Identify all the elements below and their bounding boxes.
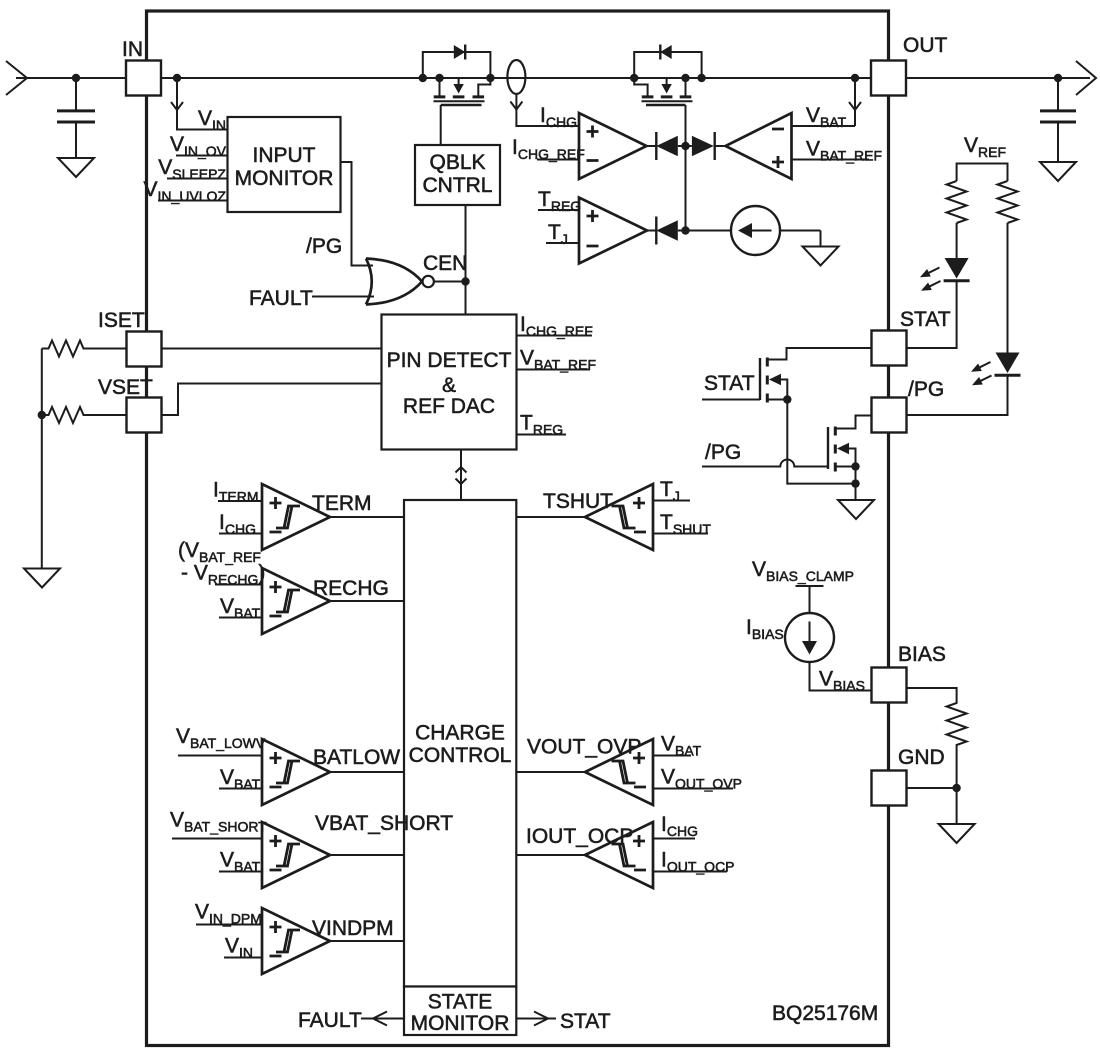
wire IN-OUT top rail [16, 77, 1090, 79]
svg-text:/PG: /PG [908, 378, 944, 401]
ground input cap [58, 158, 94, 177]
node V_BAT_SHORT input [170, 809, 267, 839]
wire V_BAT tap from OUT [792, 74, 862, 130]
pin VSET [98, 376, 162, 433]
resistor R_ISET [42, 341, 127, 357]
op-amp A1 charge current [579, 113, 647, 179]
pin /PG [872, 378, 945, 433]
comparator TSHUT [517, 484, 654, 550]
block PIN DETECT REF DAC [382, 315, 517, 450]
svg-text:VBAT_SHORT: VBAT_SHORT [170, 809, 267, 835]
node V_BAT input BATLOW [219, 766, 262, 792]
node I_CHG input IOUT_OCP [653, 813, 698, 839]
node V_IN_DPM input [195, 901, 262, 927]
ground ISET VSET [24, 569, 60, 588]
node output cap junction [1054, 74, 1062, 82]
ground thermal clamp [803, 247, 839, 266]
svg-text:ISET: ISET [98, 309, 145, 332]
LED STAT [907, 223, 970, 348]
svg-text:OUT: OUT [903, 34, 948, 57]
node V_IN input VINDPM [224, 935, 262, 961]
resistor R_STAT_LED [947, 181, 967, 223]
svg-text:CONTROL: CONTROL [409, 744, 512, 767]
svg-text:STATE: STATE [428, 991, 493, 1014]
svg-text:BQ25176M: BQ25176M [772, 1002, 878, 1025]
svg-text:ICHG: ICHG [540, 104, 577, 130]
wire GND pin to resistor [907, 787, 957, 789]
wire V_IN tap [171, 74, 228, 130]
block CHARGE CONTROL [404, 500, 516, 987]
capacitor C_OUT [1040, 78, 1076, 162]
node VBAT_REF-VRECHG input [178, 539, 265, 588]
node T_REG output [517, 412, 567, 438]
node T_J input TSHUT [653, 478, 690, 504]
node V_IN_UVLOZ [144, 178, 228, 204]
node V_OUT_OVP input [653, 766, 742, 792]
node input cap junction [72, 74, 80, 82]
node ISET-VSET ground net [38, 349, 46, 569]
svg-text:MONITOR: MONITOR [235, 167, 334, 190]
svg-text:BATLOW: BATLOW [313, 746, 400, 769]
resistor R_PG_LED [998, 181, 1018, 223]
node I_CHG_REF input A1 [512, 136, 585, 162]
node V_IN label [198, 107, 226, 133]
svg-text:QBLK: QBLK [429, 151, 485, 174]
svg-text:VIN: VIN [198, 107, 226, 133]
node A gate net [681, 142, 689, 235]
svg-text:VBAT_LOWV: VBAT_LOWV [176, 725, 266, 751]
svg-text:VBAT: VBAT [806, 104, 847, 130]
comparator TERM [262, 484, 404, 550]
node V_BAT_REF output [517, 347, 597, 373]
transistor Q_STAT [702, 348, 871, 484]
comparator BATLOW [262, 739, 404, 805]
wire STAT output [516, 1010, 610, 1033]
svg-text:ICHG: ICHG [661, 813, 698, 839]
svg-text:INPUT: INPUT [253, 144, 316, 167]
node BQ25176M part label [772, 1002, 878, 1025]
svg-text:VBIAS: VBIAS [819, 668, 865, 694]
node T_REG input A3 [538, 188, 581, 214]
node V_BAT_REF input A2 [792, 138, 883, 164]
svg-text:CEN: CEN [423, 252, 467, 275]
svg-text:FAULT: FAULT [249, 287, 313, 310]
svg-text:ICHG_REF: ICHG_REF [512, 136, 585, 162]
svg-text:STAT: STAT [560, 1010, 611, 1033]
svg-text:IN: IN [122, 38, 143, 61]
svg-text:GND: GND [898, 746, 945, 769]
svg-text:/PG: /PG [705, 441, 741, 464]
node I_CHG_REF output [517, 313, 593, 339]
wire FAULT input [249, 287, 374, 310]
node T_SHUT input [653, 511, 711, 537]
node V_BAT input VOUT_OVP [653, 733, 702, 759]
svg-text:STAT: STAT [704, 372, 755, 395]
comparator VINDPM [262, 908, 404, 974]
ground BIAS resistor [939, 824, 975, 843]
node V_IN_OV [170, 133, 228, 159]
wire FAULT output [298, 1009, 404, 1032]
ground Q_STAT Q_PG [838, 500, 874, 519]
node V_BIAS_CLAMP [752, 558, 854, 613]
diode D3 A1 output [647, 132, 686, 160]
wire /PG from input monitor [306, 162, 373, 266]
node I_CHG sense label [540, 104, 577, 130]
pin OUT [871, 34, 948, 96]
comparator VBAT_SHORT [262, 812, 453, 888]
svg-text:TERM: TERM [312, 492, 372, 515]
svg-text:TSHUT: TSHUT [543, 490, 613, 513]
node T_J input A3 [546, 221, 579, 247]
svg-text:BIAS: BIAS [898, 643, 946, 666]
output arrow [1076, 61, 1096, 95]
pin BIAS [872, 643, 946, 703]
svg-text:FAULT: FAULT [298, 1009, 362, 1032]
gate NOR CEN [366, 259, 434, 305]
wire VSET to PIN DETECT [161, 384, 382, 416]
comparator VOUT_OVP [517, 736, 654, 806]
svg-text:/PG: /PG [306, 235, 342, 258]
svg-text:VREF: VREF [964, 134, 1006, 160]
wire ISET to PIN DETECT [161, 348, 382, 350]
svg-text:VBAT_SHORT: VBAT_SHORT [315, 812, 453, 835]
comparator RECHG [262, 568, 404, 634]
node V_SLEEPZ [158, 156, 227, 182]
LED PG [907, 223, 1021, 415]
svg-text:STAT: STAT [900, 308, 951, 331]
node CEN [423, 252, 470, 286]
svg-text:VSET: VSET [98, 376, 153, 399]
svg-text:REF DAC: REF DAC [403, 395, 495, 418]
node V_BIAS [819, 668, 865, 694]
svg-text:MONITOR: MONITOR [411, 1012, 510, 1035]
block STATE MONITOR [404, 987, 516, 1036]
current sense ellipse [507, 60, 579, 126]
diode D5 A3 output [647, 217, 686, 245]
node I_TERM input [213, 479, 262, 505]
ground output cap [1040, 162, 1076, 181]
svg-text:VOUT_OVP: VOUT_OVP [527, 736, 641, 759]
op-amp A2 battery voltage [726, 113, 792, 179]
block INPUT MONITOR [228, 117, 341, 212]
current source I_BIAS [746, 613, 872, 691]
pin ISET [98, 309, 162, 367]
svg-text:VINDPM: VINDPM [312, 917, 394, 940]
pin GND [872, 746, 945, 806]
svg-text:IOUT_OCP: IOUT_OCP [526, 825, 633, 848]
node I_OUT_OCP input [653, 849, 735, 875]
current source thermal clamp [686, 206, 821, 255]
block QBLK CNTRL [415, 145, 500, 205]
transistor Q1 pass FET [419, 74, 495, 145]
pin STAT [872, 308, 951, 366]
node I_CHG input TERM [219, 511, 262, 537]
wire QBLK to PIN DETECT (CEN net) [465, 205, 467, 315]
transistor Q2 pass FET [630, 74, 706, 146]
node V_BAT input VBAT_SHORT [219, 849, 262, 875]
input arrow [6, 61, 27, 95]
svg-text:&: & [442, 374, 456, 397]
svg-text:IBIAS: IBIAS [746, 616, 784, 642]
transistor Q_PG [702, 416, 871, 501]
wire bidirectional PIN DETECT to CHARGE CONTROL [456, 450, 467, 501]
capacitor C_IN [57, 78, 95, 158]
op-amp A3 thermal [579, 198, 647, 264]
body diode D2 of Q2 [634, 45, 701, 79]
svg-text:PIN DETECT: PIN DETECT [387, 349, 512, 372]
diode D4 A2 output [686, 132, 726, 160]
pin IN [122, 38, 161, 96]
IC boundary BQ25176M [147, 11, 889, 1046]
body diode D1 of Q1 [423, 45, 491, 79]
svg-text:CNTRL: CNTRL [422, 174, 492, 197]
node V_REF rail [957, 134, 1008, 181]
svg-text:VBIAS_CLAMP: VBIAS_CLAMP [752, 558, 854, 584]
node V_BAT_LOWV input [176, 725, 266, 756]
svg-text:RECHG: RECHG [313, 577, 389, 600]
svg-text:VIN_DPM: VIN_DPM [195, 901, 262, 927]
comparator IOUT_OCP [517, 822, 654, 888]
resistor R_VSET [42, 407, 127, 423]
svg-text:CHARGE: CHARGE [415, 722, 505, 745]
node V_BAT input RECHG [219, 595, 262, 621]
resistor R_BIAS [907, 688, 967, 824]
